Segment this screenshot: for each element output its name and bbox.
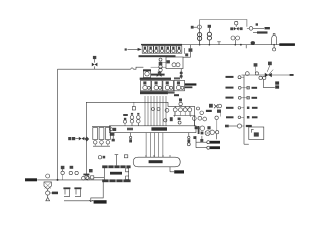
quench drum (horizontal capsule) — [133, 155, 180, 167]
wire main overhead line — [182, 44, 295, 46]
label tag B — [253, 31, 268, 33]
small label under bank2 — [168, 91, 179, 96]
vertical main from suction line to bottom feed — [57, 69, 59, 181]
seal pots — [63, 187, 95, 200]
wire — [208, 28, 210, 32]
drum outlet label — [170, 167, 184, 174]
pump outlet labels — [196, 136, 220, 149]
wire top header line — [200, 20, 247, 27]
nozzle assemblies under band — [129, 133, 190, 143]
small box on loop top edge — [132, 102, 135, 110]
wire filter to drum — [151, 66, 166, 68]
bottom feed line — [25, 178, 104, 181]
box at band right end — [195, 126, 198, 129]
suction line from west — [58, 67, 144, 69]
circle at band top left — [164, 119, 167, 122]
valve stack pair — [207, 32, 211, 44]
blowdown box bottom right — [244, 127, 264, 144]
twin circles on bottom line right — [82, 174, 90, 180]
instrument box — [208, 25, 211, 28]
letdown path to stacked boxes — [264, 80, 280, 89]
wire loop left edge continues down — [85, 139, 87, 175]
cell 6 — [171, 46, 176, 53]
wire riser from main line to compressor KO drum — [199, 20, 201, 45]
instrument circle on top loop — [247, 27, 249, 29]
instrument box with tag — [191, 26, 197, 29]
drain circle under vessel — [273, 45, 276, 51]
valve branch west of loop — [68, 137, 89, 142]
control valve assembly — [230, 22, 242, 31]
bank1 bottom plenum bar — [139, 55, 176, 57]
east header horizontal line — [242, 74, 293, 76]
wire loop right to band — [194, 120, 196, 126]
cell 3 — [154, 46, 159, 53]
pressure control valve on suction line — [92, 56, 98, 69]
valve with diagonal stem on east line — [265, 62, 273, 78]
band left end fittings — [110, 128, 116, 142]
inline dark valve lump — [251, 41, 255, 45]
compressor suction drum (rect with internals) — [166, 57, 183, 69]
cyl 1 — [141, 80, 151, 90]
small fittings near band right — [187, 136, 196, 146]
instruments above band left — [123, 113, 140, 126]
furnace outlet piping — [89, 182, 107, 204]
instrument box under main line — [183, 45, 192, 58]
node junctions on main line — [199, 44, 275, 46]
brackets left of furnace — [126, 168, 129, 179]
cell 1 — [142, 46, 147, 53]
interstage cooler band — [109, 126, 196, 133]
cell 4 — [159, 46, 164, 53]
east line end tick — [290, 74, 294, 76]
big recycle loop rectangle — [86, 102, 194, 138]
instrument above furnace — [98, 156, 105, 159]
wire from drum down — [180, 69, 183, 79]
instruments above bottom line — [61, 166, 79, 180]
wire stub to relief header — [245, 45, 247, 49]
circle at bundle corner — [165, 108, 169, 112]
valve stack pair — [198, 33, 202, 45]
left instrument column of drum — [157, 58, 166, 77]
twin circles under control valve — [231, 36, 240, 45]
instrument row under loop top (4 circles) — [152, 106, 217, 130]
burner cluster left of furnace — [85, 169, 104, 179]
circle instrument — [197, 25, 201, 29]
feed label — [25, 178, 37, 181]
twin circles below east line — [259, 76, 266, 79]
small box left of drum — [124, 155, 127, 158]
feed arrow into exchanger bank 1 — [125, 48, 142, 51]
pump drain box — [200, 136, 203, 142]
compressor discharge cluster — [170, 104, 222, 124]
circle above flare line — [256, 23, 258, 25]
cyl 3 — [163, 80, 173, 90]
cyl 4 — [174, 80, 184, 90]
knock-out vessel — [272, 34, 277, 45]
discharge tube bundle — [145, 96, 166, 126]
compressor label — [185, 83, 197, 85]
pump circle below strainer — [46, 189, 58, 201]
wire riser — [199, 29, 201, 33]
junction node — [240, 44, 242, 46]
stacked instrument on loop edge — [179, 98, 182, 105]
inlet filter — [143, 69, 151, 77]
cell 7 — [176, 46, 181, 53]
adsorber columns (3) — [92, 127, 111, 147]
bundle from band to quench drum — [146, 133, 163, 157]
PSV circle on east line — [245, 63, 258, 75]
cyl 2 — [152, 80, 162, 90]
exchanger bank 1 (7 fin-fan cells) — [139, 44, 189, 57]
header branch row 2 — [226, 96, 258, 99]
relief header east column — [243, 75, 245, 144]
cell 2 — [148, 46, 153, 53]
label tag A — [265, 27, 270, 29]
furnace box — [102, 155, 130, 183]
header branch row 1 — [226, 86, 258, 89]
header branch row 5 — [225, 124, 252, 128]
filter label bar — [151, 74, 165, 76]
cell 5 — [165, 46, 170, 53]
header branch row 3 — [226, 107, 258, 110]
bank2 bottom plenum bar — [140, 91, 168, 94]
header branch row 0 — [226, 76, 245, 79]
header branch row 4 — [226, 116, 258, 119]
strainer with circle on bottom line — [44, 174, 51, 189]
line label TO FLARE — [279, 43, 295, 46]
recycle pumps cluster — [198, 126, 219, 139]
bank1 right nozzle — [183, 48, 185, 54]
compressor bank 2 (4 cylinders) — [140, 77, 185, 90]
wire to labels — [253, 27, 264, 29]
vent tee on main line — [217, 42, 220, 45]
